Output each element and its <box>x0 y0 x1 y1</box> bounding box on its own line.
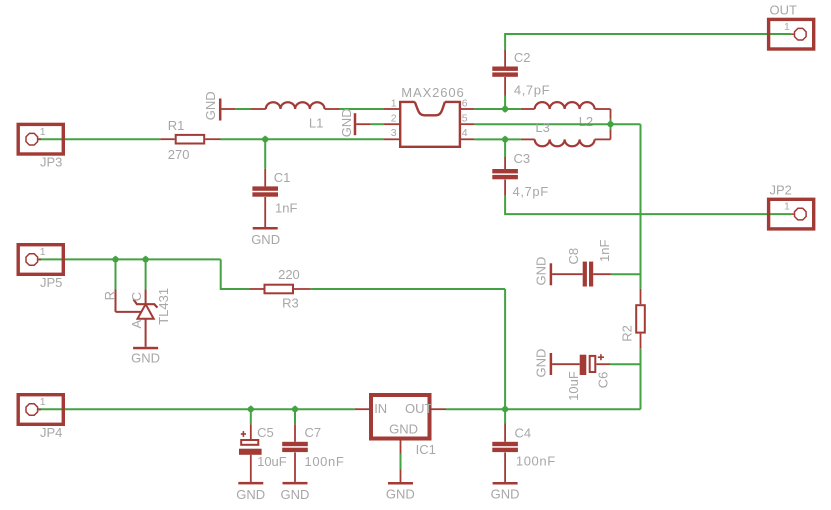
svg-text:GND: GND <box>236 487 265 502</box>
svg-text:MAX2606: MAX2606 <box>401 85 464 100</box>
svg-text:1: 1 <box>40 246 46 258</box>
svg-text:R: R <box>102 291 117 300</box>
inductor L3 <box>521 120 611 146</box>
transistor TL431 shunt regulator <box>102 288 171 347</box>
resistor R3 <box>250 267 311 310</box>
svg-text:1: 1 <box>784 21 790 33</box>
capacitor C4 <box>492 425 555 482</box>
wire R3 to output node <box>311 289 505 409</box>
wire C8 to bus <box>611 273 641 275</box>
svg-text:GND: GND <box>389 421 418 436</box>
ground GND below C4 <box>491 482 520 502</box>
svg-text:C2: C2 <box>514 50 531 65</box>
pin 5 <box>460 112 474 124</box>
junction node pin4/C3 <box>501 136 509 144</box>
inductor L2 <box>521 102 611 129</box>
wire C7 drop <box>294 409 296 442</box>
ground GND at C6 <box>534 349 580 378</box>
svg-text:1: 1 <box>784 201 790 213</box>
wire GND to L1 <box>235 108 250 110</box>
svg-text:GND: GND <box>131 351 160 366</box>
svg-text:JP2: JP2 <box>770 183 792 198</box>
svg-text:1nF: 1nF <box>275 200 297 215</box>
svg-text:GND: GND <box>281 487 310 502</box>
connector JP3 <box>18 124 63 169</box>
svg-text:4: 4 <box>462 127 468 139</box>
svg-text:C3: C3 <box>514 151 531 166</box>
svg-text:2: 2 <box>391 112 397 124</box>
svg-text:IC1: IC1 <box>416 442 436 457</box>
wire C5 drop <box>250 409 252 439</box>
capacitor C8 <box>566 240 612 287</box>
svg-text:GND: GND <box>386 486 415 501</box>
ground GND below IC1 <box>386 482 415 501</box>
svg-text:R1: R1 <box>168 118 185 133</box>
svg-text:L2: L2 <box>579 114 593 129</box>
svg-text:100nF: 100nF <box>516 453 556 468</box>
svg-text:4,7pF: 4,7pF <box>514 83 550 98</box>
capacitor C5 polarized <box>239 425 287 482</box>
svg-text:1nF: 1nF <box>597 240 612 262</box>
svg-text:GND: GND <box>534 349 549 378</box>
wire C4 drop <box>504 409 506 442</box>
inductor L1 <box>251 102 340 130</box>
svg-text:L1: L1 <box>309 115 323 130</box>
connector JP2 <box>769 183 814 229</box>
svg-text:1: 1 <box>391 98 397 110</box>
svg-text:R2: R2 <box>619 325 634 342</box>
svg-text:C6: C6 <box>596 372 611 389</box>
connector JP4 <box>18 395 63 440</box>
svg-text:5: 5 <box>462 112 468 124</box>
svg-text:3: 3 <box>391 127 397 139</box>
wire JP5 row <box>38 258 220 260</box>
wire JP4 row <box>38 408 354 410</box>
ground GND below TL431 <box>131 347 160 366</box>
capacitor C7 <box>282 425 344 482</box>
svg-text:A: A <box>129 320 144 329</box>
ground GND at L1 input <box>203 91 235 120</box>
wire C3 to JP2 <box>505 196 791 214</box>
ground GND at MAX2606 pin 2 <box>339 108 370 137</box>
capacitor C1 <box>252 170 297 227</box>
ground GND below C1 <box>251 227 280 247</box>
capacitor C2 <box>492 49 550 97</box>
wire pin 6 to node <box>474 108 521 110</box>
svg-text:JP3: JP3 <box>40 155 62 170</box>
capacitor C6 polarized <box>566 354 611 401</box>
pin 6 <box>460 98 474 110</box>
svg-text:GND: GND <box>534 257 549 286</box>
wire IC1 output stub <box>432 408 447 410</box>
junction node at R1/C1 <box>261 135 269 143</box>
resistor R2 <box>619 289 644 349</box>
wire GND to MAX2606 pin 2 <box>371 123 384 125</box>
wire IC1 output to bus <box>446 364 641 409</box>
svg-text:C: C <box>129 292 144 301</box>
op-amp U1 MAX2606 VCO <box>400 85 465 147</box>
capacitor C3 <box>492 151 548 199</box>
svg-text:IN: IN <box>374 401 387 416</box>
svg-text:C7: C7 <box>305 425 322 440</box>
wire IC1 ground pin <box>400 439 402 483</box>
connector JP5 <box>18 245 63 290</box>
svg-text:C1: C1 <box>274 170 291 185</box>
wire R1 to MAX2606 pin 3 <box>221 138 385 140</box>
wire C1 drop <box>264 139 266 186</box>
pin 1 <box>384 98 400 110</box>
wire C2 riser <box>504 77 506 109</box>
svg-text:1: 1 <box>40 126 46 138</box>
pin 2 <box>384 112 400 124</box>
junction C7 node <box>291 405 299 413</box>
connector OUT <box>769 3 814 49</box>
svg-text:GND: GND <box>203 91 218 120</box>
svg-text:L3: L3 <box>535 120 549 135</box>
junction C5 node <box>247 405 255 413</box>
svg-text:10uF: 10uF <box>566 371 581 401</box>
ground GND at C8 <box>534 257 583 286</box>
svg-text:C4: C4 <box>515 425 532 440</box>
svg-text:GND: GND <box>339 108 354 137</box>
ground GND below C7 <box>281 482 310 502</box>
svg-text:GND: GND <box>491 487 520 502</box>
junction node L2/L3/pin5 <box>607 119 615 130</box>
svg-text:6: 6 <box>462 98 468 110</box>
resistor R1 <box>160 118 220 162</box>
wire C3 drop <box>504 139 506 169</box>
wire pin 4 to L3 <box>474 138 521 140</box>
wire C2 to OUT connector <box>505 34 791 49</box>
wire node to right bus <box>611 123 641 125</box>
svg-text:10uF: 10uF <box>257 454 287 469</box>
pin 3 <box>384 127 400 139</box>
svg-text:270: 270 <box>168 147 190 162</box>
wire R2 to C6 node <box>640 349 642 410</box>
svg-text:TL431: TL431 <box>156 288 171 325</box>
junction output node C4/R3 <box>501 405 509 413</box>
svg-text:OUT: OUT <box>405 401 433 416</box>
svg-text:JP4: JP4 <box>40 425 62 440</box>
svg-text:4,7pF: 4,7pF <box>513 184 549 199</box>
svg-text:C8: C8 <box>566 248 581 265</box>
svg-text:R3: R3 <box>282 296 299 311</box>
ground GND below C5 <box>236 482 265 502</box>
svg-text:OUT: OUT <box>770 3 798 18</box>
wire C6 to bus <box>610 363 641 365</box>
wire pin 5 to node <box>474 123 610 125</box>
wire TL431 cathode drop <box>145 259 147 289</box>
wire JP5 step down to R3 <box>221 259 250 289</box>
wire right vertical bus <box>640 124 642 289</box>
wire L1 to MAX2606 pin 1 <box>340 108 385 110</box>
svg-text:C5: C5 <box>257 425 274 440</box>
pin 4 <box>460 127 474 139</box>
svg-text:JP5: JP5 <box>40 275 62 290</box>
wire IC1 input stub <box>355 408 369 410</box>
wire TL431 reference drop <box>115 259 117 289</box>
junction TL431 R pin <box>112 256 120 264</box>
wire net JP3 to R1 <box>38 138 160 140</box>
junction TL431 C pin <box>142 256 150 264</box>
svg-text:GND: GND <box>251 232 280 247</box>
svg-text:100nF: 100nF <box>305 454 345 469</box>
svg-text:220: 220 <box>278 267 300 282</box>
junction node pin6/C2/L2 <box>501 105 509 113</box>
svg-text:1: 1 <box>40 396 46 408</box>
op-amp IC1 voltage regulator <box>371 395 436 457</box>
